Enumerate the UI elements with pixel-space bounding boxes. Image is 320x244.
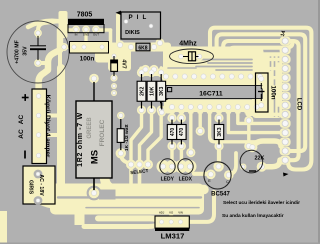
- svg-text:VIN: VIN: [178, 211, 183, 215]
- svg-text:22K: 22K: [255, 156, 265, 162]
- svg-text:+4700 MF: +4700 MF: [15, 40, 21, 64]
- svg-text:35V: 35V: [23, 46, 29, 56]
- svg-text:ADJ: ADJ: [159, 211, 165, 215]
- svg-text:Select ucu ilerideki ilaveler: Select ucu ilerideki ilaveler icindir: [223, 200, 300, 206]
- svg-text:Su anda kullan lmayacaktir: Su anda kullan lmayacaktir: [222, 213, 284, 219]
- svg-text:LM317: LM317: [161, 232, 185, 241]
- svg-text:LEDY: LEDY: [161, 176, 175, 182]
- svg-text:AC: AC: [18, 129, 25, 139]
- svg-text:2K2: 2K2: [139, 86, 145, 95]
- svg-text:AC - 18V: AC - 18V: [38, 174, 44, 196]
- svg-text:LCD: LCD: [296, 98, 302, 111]
- svg-text:16C711: 16C711: [199, 91, 223, 98]
- svg-text:4Mhz: 4Mhz: [179, 41, 197, 48]
- svg-text:IN: IN: [75, 33, 78, 37]
- svg-text:470: 470: [179, 128, 185, 137]
- svg-text:100n: 100n: [80, 56, 95, 63]
- svg-text:MS: MS: [90, 150, 101, 164]
- svg-text:BC547: BC547: [211, 192, 230, 198]
- svg-text:6K8: 6K8: [138, 45, 147, 51]
- svg-text:E: E: [208, 179, 211, 183]
- svg-text:DIKIS: DIKIS: [125, 30, 140, 36]
- svg-text:3K3: 3K3: [159, 86, 165, 95]
- svg-text:LEDX: LEDX: [179, 176, 193, 182]
- svg-text:P I L: P I L: [129, 14, 148, 21]
- svg-text:Köprü Diyot 4 amper: Köprü Diyot 4 amper: [44, 95, 51, 158]
- svg-text:1R2 ohm -7 W: 1R2 ohm -7 W: [77, 112, 84, 167]
- svg-text:GREEB: GREEB: [87, 117, 93, 139]
- svg-text:100n: 100n: [270, 85, 277, 99]
- svg-text:C: C: [226, 180, 229, 184]
- svg-text:AC: AC: [18, 115, 25, 125]
- svg-text:GIRIS: GIRIS: [28, 180, 34, 195]
- svg-text:GND: GND: [83, 33, 89, 37]
- svg-text:3K3: 3K3: [217, 127, 223, 136]
- svg-text:10K: 10K: [149, 86, 155, 96]
- svg-text:470: 470: [170, 128, 176, 137]
- svg-text:FROLEC: FROLEC: [99, 119, 106, 146]
- svg-text:4V7: 4V7: [121, 59, 127, 68]
- svg-text:OUT: OUT: [93, 33, 99, 37]
- svg-text:7805: 7805: [77, 12, 93, 19]
- svg-text:1K -1/2 watt: 1K -1/2 watt: [124, 124, 130, 151]
